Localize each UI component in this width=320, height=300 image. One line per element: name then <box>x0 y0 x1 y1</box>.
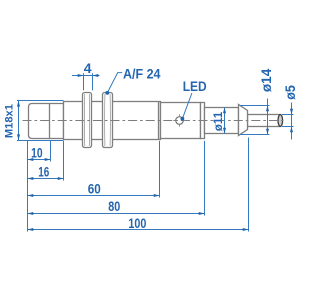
centerline <box>23 120 286 122</box>
rear housing <box>161 103 201 139</box>
LED leader dot <box>181 117 185 121</box>
connector collar <box>239 105 248 136</box>
svg-text:ø11: ø11 <box>211 111 225 131</box>
dim o11 line <box>224 108 226 134</box>
connector pin <box>248 115 281 127</box>
svg-text:4: 4 <box>84 60 92 76</box>
sleeve step line (10mm) <box>49 104 51 139</box>
svg-text:80: 80 <box>108 198 120 214</box>
dim 4 extension lines <box>83 73 85 90</box>
LED hole ticks <box>173 114 185 127</box>
bottom extension line x204 <box>204 141 206 216</box>
dim 10 line <box>28 159 51 161</box>
svg-text:ø5: ø5 <box>282 85 298 100</box>
svg-text:M18x1: M18x1 <box>3 104 15 138</box>
svg-text:A/F 24: A/F 24 <box>123 66 161 82</box>
bottom extension line x27 <box>27 141 29 232</box>
barrel end line <box>158 102 160 140</box>
LED hole <box>176 117 184 125</box>
pin end <box>278 115 283 127</box>
nut 1 <box>83 93 92 148</box>
bottom extension line x160 <box>159 141 161 198</box>
nut 1 face lines <box>84 94 89 146</box>
svg-text:100: 100 <box>128 215 146 231</box>
dim M18x1 line <box>18 101 20 141</box>
bottom extension line x50 <box>50 141 52 162</box>
rear flange <box>201 103 205 139</box>
svg-text:LED: LED <box>183 78 207 94</box>
dim 4 arrows <box>78 74 84 77</box>
bottom extension line x248 <box>248 138 250 232</box>
dim 16 line <box>28 178 64 180</box>
A/F 24 leader dot <box>105 91 109 95</box>
connector neck <box>205 108 239 134</box>
nut 2 face lines <box>105 94 111 146</box>
svg-text:60: 60 <box>88 181 101 197</box>
nut 2 <box>103 93 113 148</box>
svg-text:ø14: ø14 <box>258 68 274 92</box>
dim 4 line <box>72 75 100 77</box>
dim 60 line <box>28 195 160 197</box>
svg-text:10: 10 <box>31 144 43 160</box>
dim 80 line <box>28 213 205 215</box>
dim o14 line <box>267 99 269 135</box>
svg-text:16: 16 <box>38 164 49 180</box>
dim o5 line <box>291 103 293 140</box>
dim M18x1 extension lines <box>17 100 64 102</box>
dim o5 extension lines <box>282 114 294 116</box>
A/F 24 leader <box>107 73 122 93</box>
dim o14 extension lines <box>240 105 270 107</box>
dim M18x1 arrows <box>17 101 20 107</box>
bottom extension line x63 <box>63 141 65 181</box>
front sleeve <box>29 104 64 139</box>
LED leader <box>182 93 192 119</box>
thread barrel <box>64 102 161 140</box>
dim 100 line <box>28 229 249 231</box>
